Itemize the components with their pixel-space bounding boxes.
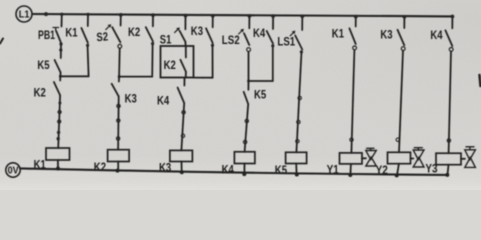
- node LS1 lower terminal: [300, 50, 303, 53]
- node bead 10: [181, 134, 184, 137]
- node rung8 rail junction: [271, 14, 275, 18]
- wire LS1 to coil K5: [296, 54, 301, 153]
- node join group1 corner: [59, 75, 62, 78]
- contact K1: [65, 25, 88, 43]
- node bead 5: [57, 137, 60, 140]
- terminal 0V: [6, 163, 20, 177]
- coil Y3: [425, 153, 461, 175]
- node Y3 rail junction (rail end): [445, 173, 449, 177]
- node rung9 rail junction: [300, 14, 304, 18]
- node K4 lower terminal (open): [449, 48, 453, 52]
- coil K1: [34, 148, 70, 172]
- node bead 14: [297, 120, 300, 123]
- valve symbol V1: [366, 148, 377, 166]
- node K3 lower terminal: [211, 44, 214, 47]
- valve symbol V2: [413, 148, 424, 167]
- node K2 rail junction: [116, 169, 120, 173]
- wire coil K5 to bottom rail: [295, 164, 297, 175]
- coil K2: [94, 150, 129, 174]
- node rung4 rail junction: [151, 13, 155, 17]
- node bead 18: [447, 139, 450, 142]
- coil K5: [275, 152, 307, 177]
- contact K3 (rung 11): [380, 27, 404, 45]
- wire PB1 rung top: [61, 14, 63, 26]
- coil Y1: [327, 153, 362, 177]
- node join group4 corner: [247, 80, 250, 83]
- node bead 2: [58, 110, 61, 113]
- coil K3: [159, 150, 192, 174]
- svg-text:K3: K3: [191, 24, 203, 38]
- wire S1 into box: [184, 42, 186, 46]
- limit switch S2: [96, 24, 120, 44]
- wire K1 branch down to join: [88, 47, 89, 77]
- node rung10 rail junction: [354, 15, 358, 19]
- svg-text:K4: K4: [222, 163, 234, 177]
- svg-text:K3: K3: [125, 92, 137, 106]
- node K1 lower terminal (open): [353, 46, 357, 50]
- node rung12 rail junction: [451, 15, 455, 19]
- limit switch LS1: [277, 31, 302, 50]
- wire K2 rung top: [152, 15, 154, 26]
- node rung1 rail junction: [60, 13, 63, 16]
- node K4 rail junction: [242, 172, 246, 176]
- node Y1 rail junction: [348, 173, 352, 177]
- bottom return rail: [20, 168, 447, 175]
- wire coil Y1 to bottom rail: [349, 164, 352, 175]
- node K5 rail junction: [295, 173, 299, 177]
- node Y2 rail junction: [395, 173, 399, 177]
- coil K4: [222, 152, 255, 177]
- svg-text:Y3: Y3: [425, 162, 437, 176]
- node PB1 wire dot: [59, 48, 62, 51]
- contact K3 (rung 6): [191, 24, 213, 43]
- node rung2 rail junction: [86, 13, 89, 16]
- wire join group1: [60, 75, 88, 77]
- wire coil Y2 to valve Y2: [411, 158, 414, 160]
- node PB1 lower terminal: [59, 42, 62, 45]
- svg-text:K1: K1: [65, 25, 77, 39]
- wire K4 contact to coil K3: [181, 103, 184, 150]
- node bead 1: [58, 102, 61, 105]
- node K4 lower terminal: [271, 44, 274, 47]
- svg-text:LS2: LS2: [222, 33, 240, 47]
- svg-text:L1: L1: [19, 9, 30, 21]
- node bead 17: [396, 138, 399, 141]
- node rung11 rail junction: [403, 15, 407, 19]
- wire K3 rung top (rung 11): [403, 17, 405, 28]
- wire K1 to coil Y1: [351, 50, 354, 153]
- contact K2 (output rung group1): [34, 76, 61, 99]
- node rung7 rail junction: [248, 14, 252, 18]
- node bead 4: [57, 131, 60, 134]
- svg-text:K4: K4: [157, 93, 169, 107]
- contact K5 (series in rung 1): [37, 58, 60, 73]
- wire S1 rung top: [184, 16, 186, 30]
- highlight box around K2: [161, 46, 194, 78]
- node bead 16: [350, 138, 353, 141]
- contact K4 (rung 12): [430, 28, 452, 46]
- wire K4 branch down to join: [272, 47, 274, 81]
- svg-text:S2: S2: [96, 29, 109, 44]
- wire K4 to coil Y3: [449, 51, 451, 153]
- wire PB1 to K5: [60, 44, 62, 58]
- svg-text:K5: K5: [37, 58, 49, 72]
- wire coil K3 to bottom rail: [181, 162, 183, 173]
- top supply rail: [33, 14, 454, 16]
- svg-text:K2: K2: [34, 86, 46, 100]
- svg-text:K2: K2: [164, 58, 176, 72]
- wire K1 rung top (rung 10): [355, 17, 357, 27]
- wire (scan artifact right edge): [480, 75, 481, 86]
- contact K4 (rung 8): [253, 26, 273, 44]
- node bead 3: [58, 120, 61, 123]
- node bead 12: [243, 140, 246, 143]
- contact K4 (output rung group3): [157, 78, 185, 108]
- svg-text:K1: K1: [332, 27, 344, 41]
- terminal L1: [16, 6, 32, 22]
- wire coil K1 to bottom rail: [57, 160, 59, 168]
- svg-text:LS1: LS1: [277, 35, 295, 49]
- contact K1 (rung 10): [332, 27, 356, 44]
- wire join group4: [249, 80, 273, 82]
- node K1 rail junction: [56, 167, 60, 171]
- wire LS2 rung top: [248, 16, 250, 28]
- svg-text:K2: K2: [128, 25, 140, 39]
- wire coil Y1 to valve Y1: [362, 157, 366, 159]
- wire K2 box contact to box bottom: [185, 72, 187, 78]
- node bead 13: [298, 96, 301, 99]
- wire S2 rung top: [120, 15, 122, 26]
- wire K5 to join: [59, 73, 61, 77]
- svg-text:K3: K3: [380, 27, 392, 41]
- wire K3 branch down to join: [212, 47, 214, 78]
- node bead 15: [296, 140, 299, 143]
- node bead 8: [116, 137, 119, 140]
- svg-text:K5: K5: [275, 163, 287, 177]
- limit switch S1: [160, 27, 186, 46]
- pushbutton PB1: [38, 28, 61, 44]
- node K1 lower terminal: [86, 44, 89, 47]
- wire K4 rung top (rung 12): [451, 17, 453, 29]
- svg-text:PB1: PB1: [38, 28, 55, 42]
- contact K2 (inside box): [164, 46, 186, 72]
- wire K1 rung top: [87, 14, 89, 26]
- wire K3 rung top: [212, 16, 214, 27]
- wire coil Y2 to bottom rail: [397, 164, 399, 176]
- contact K5 (output rung group4): [244, 81, 267, 104]
- wire K3 contact to coil K2: [117, 96, 120, 149]
- wire join group3 (box bottom to K3 rung): [194, 77, 213, 79]
- wire coil Y3 to valve Y3: [461, 158, 465, 160]
- node rung6 rail junction: [211, 14, 215, 18]
- node bead 7: [117, 119, 120, 122]
- svg-text:K2: K2: [94, 160, 106, 174]
- svg-text:S1: S1: [160, 33, 172, 47]
- valve symbol V3: [465, 147, 476, 168]
- wire join group2: [119, 76, 152, 78]
- node S2 lower terminal (open): [118, 44, 122, 48]
- wire K5 contact to coil K4: [245, 104, 249, 152]
- svg-text:K4: K4: [253, 26, 265, 40]
- node bead 11: [245, 119, 248, 122]
- wire LS2 to join: [248, 52, 250, 81]
- limit switch LS2: [222, 29, 250, 47]
- node K3 lower terminal (open): [401, 47, 405, 51]
- wire K2 contact to coil K1: [58, 95, 60, 148]
- junction dot on top rail: [44, 12, 48, 16]
- node K2 lower terminal: [151, 42, 154, 45]
- svg-text:K4: K4: [430, 28, 442, 42]
- wire K4 rung top: [272, 16, 274, 29]
- svg-text:0V: 0V: [8, 166, 19, 177]
- wire K2 branch down to join: [151, 45, 153, 76]
- contact K2 (rung 4): [128, 25, 153, 42]
- node LS2 lower terminal (open): [247, 48, 251, 52]
- wire coil K4 to bottom rail: [243, 164, 245, 175]
- svg-text:K5: K5: [254, 88, 266, 102]
- node rung3 rail junction: [119, 13, 123, 17]
- node bead 9: [182, 111, 185, 114]
- contact K3 (output rung group2): [112, 77, 137, 106]
- node rung5 rail junction: [184, 14, 188, 18]
- wire LS1 rung top: [301, 16, 303, 30]
- wire K3 to coil Y2: [399, 51, 403, 153]
- node join group2 corner: [118, 75, 121, 78]
- wire S2 to join: [118, 48, 121, 76]
- wire coil Y3 to bottom rail: [448, 165, 449, 175]
- coil Y2: [376, 152, 411, 177]
- node bead 6: [117, 104, 120, 107]
- node K3 rail junction: [180, 170, 184, 174]
- wire coil K2 to bottom rail: [117, 162, 119, 171]
- wire (scan artifact left edge): [0, 39, 3, 44]
